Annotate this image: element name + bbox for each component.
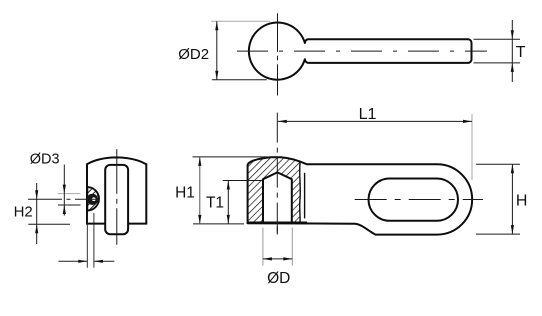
hidden edge line of bar inside socket (304, 173, 306, 219)
dimension H1 line with arrows (198, 157, 201, 224)
dimension H2 extension line bottom (28, 223, 70, 225)
small thickness dimension line with outside arrows (59, 260, 115, 263)
dimension T line with outside arrows (511, 20, 514, 82)
svg-text:L1: L1 (359, 106, 377, 123)
dimension OD line with arrows (263, 257, 292, 260)
svg-text:T1: T1 (206, 195, 224, 212)
horizontal centerline of shank (237, 50, 487, 52)
horizontal centerline obround (355, 199, 483, 201)
socket pocket (263, 172, 292, 223)
svg-text:H1: H1 (175, 184, 195, 201)
dimension OD extension lines (gray) (262, 228, 264, 266)
dimension OD3 extension line top (gray) (58, 193, 81, 195)
main body outline (248, 157, 473, 234)
dimension T1 line with arrows (227, 181, 230, 224)
dimension H extension lines (476, 163, 520, 165)
svg-text:ØD2: ØD2 (178, 46, 209, 63)
eye hole ring (87, 194, 98, 205)
dimension H1 top extension (193, 156, 278, 158)
svg-text:H: H (516, 192, 528, 209)
small thickness dimension extension lines (86, 213, 88, 268)
dimension OD3 extension line bottom (58, 204, 81, 206)
dimension OD2 extension line top (gray) (211, 20, 270, 22)
vertical centerline section view (276, 113, 278, 235)
dimension L1 line with arrows (278, 120, 472, 123)
dimension H line with arrows (511, 164, 514, 234)
dimension T extension lines (474, 38, 521, 40)
svg-text:ØD: ØD (267, 270, 290, 287)
dimension OD2 line with arrows (215, 21, 218, 79)
hatched boss (section of eye hub) (87, 187, 99, 210)
thick bottom edge of section (248, 221, 307, 224)
hatched socket section (248, 157, 300, 223)
shared bottom extension H1/T1 (193, 223, 244, 225)
dimension H2 line with outside arrows (35, 183, 38, 244)
dimension OD2 extension line bottom (212, 79, 267, 81)
dimension OD3 line with outside arrows (63, 165, 66, 216)
dimension L1 right extension (gray) (471, 114, 473, 180)
svg-text:H2: H2 (14, 203, 33, 220)
svg-text:T: T (516, 44, 526, 61)
socket inner wall wavy boundary (299, 163, 302, 223)
dimension T1 top extension (223, 180, 263, 182)
vertical centerline of ball (277, 13, 279, 95)
ball head with shank outline (249, 22, 472, 79)
body outline (87, 157, 146, 223)
centerline bottom segment below socket (276, 227, 278, 235)
obround hole (369, 179, 459, 221)
slot (rounded rect) seen through (105, 165, 128, 234)
svg-text:ØD3: ØD3 (30, 152, 60, 168)
horizontal centerline of eye hole (28, 198, 99, 200)
vertical centerline front view (116, 149, 118, 245)
